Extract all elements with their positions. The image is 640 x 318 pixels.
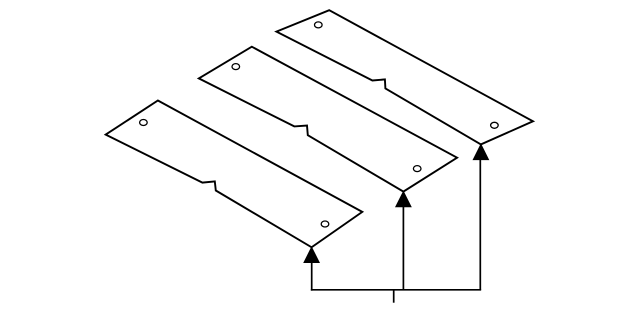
hole, plate 1 right — [491, 122, 499, 128]
hole, plate 3 left — [140, 120, 148, 126]
hole, plate 3 right — [321, 221, 329, 227]
hole, plate 1 left — [315, 22, 323, 28]
arrowhead to plate 2 — [396, 192, 411, 207]
sill plate 1 (top right) — [276, 10, 533, 144]
hole, plate 2 left — [232, 64, 240, 70]
arrowhead to plate 3 — [304, 247, 319, 262]
leader line, plate 3 — [311, 260, 313, 291]
sill plate 2 (middle) — [199, 47, 457, 192]
leader line, plate 2 — [402, 204, 404, 290]
bracket line (horizontal connector) — [311, 289, 481, 291]
hole, plate 2 right — [413, 166, 421, 172]
sill plate 3 (bottom left) — [106, 101, 363, 248]
callout stub — [393, 290, 395, 303]
leader line, plate 1 — [479, 157, 481, 290]
arrowhead to plate 1 — [473, 144, 488, 159]
